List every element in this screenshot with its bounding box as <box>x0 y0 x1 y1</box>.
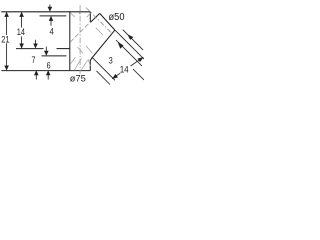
svg-text:3: 3 <box>109 55 113 66</box>
svg-text:14: 14 <box>120 64 129 75</box>
svg-text:ø50: ø50 <box>109 12 125 23</box>
svg-text:ø75: ø75 <box>70 73 86 84</box>
svg-text:7: 7 <box>32 55 36 66</box>
svg-text:14: 14 <box>17 27 25 38</box>
svg-text:21: 21 <box>1 34 9 45</box>
svg-text:4: 4 <box>50 27 54 38</box>
svg-text:6: 6 <box>47 61 51 72</box>
